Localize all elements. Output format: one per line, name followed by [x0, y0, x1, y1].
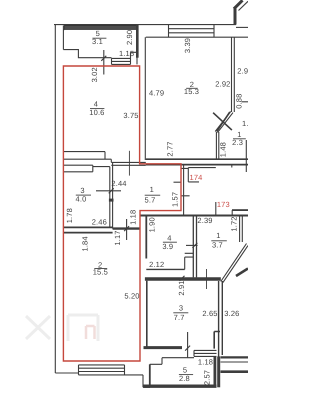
wire top-right step — [236, 26, 248, 28]
svg-text:3.7: 3.7 — [212, 241, 223, 250]
svg-text:1.72: 1.72 — [229, 216, 238, 231]
wire room7.7 niche jog — [214, 332, 220, 349]
wall below bay double — [216, 132, 218, 159]
svg-text:2.39: 2.39 — [197, 216, 212, 225]
wire fraction line — [90, 108, 104, 110]
svg-text:1.90: 1.90 — [148, 217, 157, 232]
wire fraction line — [163, 241, 177, 243]
watermark faint — [26, 315, 98, 341]
svg-text:2.12: 2.12 — [149, 260, 164, 269]
wire sill right of 0.88 — [242, 101, 249, 103]
wire room3.9 bottom step — [185, 253, 194, 269]
wall room7.7 left — [146, 281, 148, 347]
wire dim 3.02 extension — [103, 50, 105, 75]
wall room7.7 top — [145, 277, 221, 280]
wall room3 right double — [110, 162, 113, 228]
wire dim vline 1.18 bottom — [187, 332, 189, 358]
wire fraction line — [233, 138, 246, 140]
node door blob room3 — [109, 199, 114, 202]
wall room7.7 bottom — [144, 346, 183, 349]
wall diag bay2 double — [221, 244, 248, 283]
wire hall173 corner — [188, 168, 216, 182]
svg-text:10.6: 10.6 — [89, 108, 104, 117]
wire fraction line — [92, 37, 106, 39]
wire dim line room3.9 door — [186, 244, 198, 246]
svg-text:173: 173 — [217, 200, 230, 209]
svg-text:1.78: 1.78 — [65, 208, 74, 223]
svg-text:1.15: 1.15 — [242, 119, 248, 128]
svg-text:2.57: 2.57 — [203, 370, 212, 385]
svg-text:5.7: 5.7 — [145, 196, 156, 205]
wire room4 bottom steps — [63, 152, 111, 163]
wire dim vline 1.17 — [126, 219, 128, 240]
svg-text:5.20: 5.20 — [124, 291, 139, 300]
svg-text:3.39: 3.39 — [183, 38, 192, 53]
svg-text:4: 4 — [167, 233, 171, 242]
svg-text:4.0: 4.0 — [76, 195, 87, 204]
wall room3 bottom double — [63, 227, 112, 232]
svg-text:0.88: 0.88 — [234, 94, 243, 109]
svg-text:1.17: 1.17 — [113, 230, 122, 245]
svg-text:2.8: 2.8 — [179, 374, 190, 383]
svg-text:3.9: 3.9 — [162, 242, 173, 251]
svg-text:174: 174 — [190, 173, 203, 182]
wall balcony left inner — [62, 25, 64, 49]
wire balcony band bottom edge — [63, 29, 64, 31]
svg-text:2.46: 2.46 — [92, 217, 107, 226]
wire fraction line — [94, 268, 107, 270]
wire fraction line — [76, 194, 91, 196]
window balcony2 top — [194, 350, 217, 356]
wall balcony2 bottom — [144, 385, 217, 388]
wire thin diagonal top corner — [239, 1, 249, 10]
wire balcony bottom step — [63, 50, 111, 58]
svg-text:2.3: 2.3 — [232, 138, 243, 147]
wall right step above 215 — [232, 209, 248, 211]
svg-text:1.18: 1.18 — [198, 358, 213, 367]
wall balcony2 left — [149, 364, 151, 385]
wire balcony2 top approach — [150, 358, 194, 365]
wall hall173 bottom 2.12 — [146, 268, 184, 270]
wall hall bottom double — [146, 159, 248, 164]
wall bay X cross — [213, 112, 232, 132]
svg-text:1: 1 — [216, 231, 220, 240]
svg-text:7.7: 7.7 — [174, 313, 185, 322]
wire dim tick 2.44 — [109, 188, 114, 193]
wire fraction line — [173, 312, 188, 314]
wall right double below 215 — [240, 216, 243, 242]
svg-text:4.79: 4.79 — [149, 88, 164, 97]
svg-text:4: 4 — [94, 99, 98, 108]
svg-text:2.92: 2.92 — [215, 80, 230, 89]
window balcony top glazing band — [65, 25, 137, 29]
wall room3.9 left — [145, 216, 147, 258]
svg-text:3: 3 — [80, 186, 84, 195]
wire dim extension x129 — [128, 151, 130, 176]
wire tick below wall — [231, 165, 233, 167]
svg-text:3: 3 — [179, 303, 183, 312]
svg-text:2.44: 2.44 — [111, 179, 126, 188]
wire dim tick 1.57 — [174, 181, 182, 183]
svg-text:1.48: 1.48 — [218, 142, 227, 157]
wall corridor top double — [111, 162, 146, 165]
svg-text:2.90: 2.90 — [125, 30, 134, 45]
wire fraction line — [211, 240, 227, 242]
wall apt173 top — [140, 215, 248, 217]
svg-text:2.96: 2.96 — [237, 67, 248, 76]
svg-text:2.91: 2.91 — [177, 280, 186, 295]
svg-text:1.15: 1.15 — [119, 49, 134, 58]
wire dim tick 3.02 — [101, 56, 106, 61]
wall block right of window — [131, 52, 138, 64]
wire dim tick 2.91 — [180, 276, 185, 281]
wire top wall outer — [54, 24, 236, 26]
wall balcony2 right — [213, 356, 216, 385]
wire hall173 stubs — [181, 168, 190, 195]
wall corridor bottom — [113, 227, 140, 229]
svg-text:1.18: 1.18 — [128, 210, 137, 225]
wall room7.7 right double — [219, 281, 223, 357]
wire dim tick 1.17 — [124, 226, 129, 231]
wire fraction line — [179, 374, 193, 376]
wall room2 right double — [232, 37, 235, 112]
wire room2 top inner line — [146, 36, 248, 38]
window bay diagonal double — [215, 112, 233, 133]
wire fraction line — [186, 87, 198, 89]
svg-text:1.57: 1.57 — [171, 192, 180, 207]
wire dim tick — [192, 243, 197, 248]
wall room2 left — [144, 37, 146, 160]
node apartment 174 red outline — [63, 66, 181, 361]
wire vline under 173 — [215, 202, 217, 216]
wall bottom-right corner block — [217, 356, 220, 387]
wire right balcony lines — [221, 356, 249, 358]
wire dim tick — [185, 346, 190, 351]
window room2 bottom — [79, 365, 125, 375]
svg-text:1.84: 1.84 — [80, 236, 89, 251]
wall hall173 left — [183, 165, 185, 216]
window between balcony and room 4 — [112, 58, 131, 64]
wire bottom jog to balcony — [125, 375, 151, 387]
wire room3 top edge — [63, 165, 109, 172]
window room2 top glazing — [169, 25, 215, 38]
wire outer bottom-left — [55, 372, 78, 374]
svg-text:3.75: 3.75 — [123, 111, 138, 120]
wire outer left wall — [54, 25, 56, 373]
svg-text:3.02: 3.02 — [90, 67, 99, 82]
wire right neighbour wall — [245, 140, 247, 172]
wall room3.9 room3.7 double — [193, 216, 196, 277]
svg-text:1: 1 — [150, 185, 154, 194]
wire fraction line — [145, 194, 161, 196]
svg-text:3.26: 3.26 — [224, 309, 239, 318]
svg-text:2.77: 2.77 — [166, 141, 175, 156]
svg-text:2.65: 2.65 — [202, 309, 217, 318]
wall balcony right — [136, 25, 139, 58]
wall diag outer stub — [236, 269, 248, 277]
wire dim ext 2.65 — [206, 269, 208, 289]
wire dim 2.44 line — [96, 190, 121, 192]
wall top-right diagonal — [234, 7, 237, 25]
